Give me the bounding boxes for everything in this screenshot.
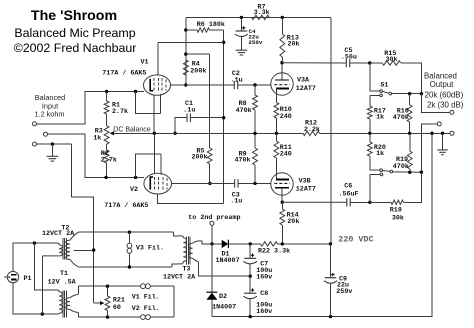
V3B plate bar bbox=[275, 187, 289, 189]
junction C5/R15/S1 bbox=[368, 61, 371, 64]
wire C7 bottom lead bbox=[249, 264, 251, 276]
svg-text:P1: P1 bbox=[24, 275, 32, 283]
label D2 bbox=[212, 293, 236, 312]
junction R16 top bbox=[408, 92, 411, 95]
T3 secondary top lead bbox=[193, 241, 212, 244]
label V3B bbox=[296, 178, 316, 194]
wire input3 to ground bbox=[37, 143, 72, 145]
V3A cathode lead bbox=[275, 89, 277, 103]
T3 primary winding bbox=[178, 236, 187, 264]
terminal to 2nd preamp bbox=[210, 221, 214, 225]
V3A plate bar bbox=[275, 79, 289, 81]
wire C4 stem bottom bbox=[240, 37, 242, 50]
label R13 bbox=[287, 35, 300, 49]
svg-text:1N4007: 1N4007 bbox=[216, 257, 240, 265]
resistor R17 (1k) bbox=[367, 106, 372, 119]
svg-text:12VCT 2A: 12VCT 2A bbox=[42, 230, 75, 238]
resistor R19 (470k) bbox=[407, 151, 412, 169]
wire P1 top lead bbox=[13, 243, 57, 271]
copyright "(c)2002 Fred Nachbaur" bbox=[14, 41, 137, 55]
junction R4 bottom on V1 plate wire bbox=[184, 83, 187, 86]
input terminal 2 (cold) bbox=[44, 132, 48, 136]
junction R21 top bbox=[106, 285, 109, 288]
label R2 bbox=[101, 150, 117, 164]
wire V3A plate row to C5 bbox=[282, 62, 370, 64]
wire V3 fil stubs bbox=[128, 232, 130, 267]
label 717A / 6AK5 (V2) bbox=[104, 202, 148, 210]
wire R5 bottom lead bbox=[209, 164, 211, 183]
label R9 bbox=[235, 150, 251, 164]
svg-text:Balanced Mic Preamp: Balanced Mic Preamp bbox=[14, 26, 135, 40]
svg-text:V3A: V3A bbox=[297, 76, 310, 84]
T1 primary winding bbox=[52, 290, 62, 314]
resistor R13 (20k) bbox=[280, 34, 285, 57]
label R17 bbox=[374, 107, 386, 121]
V3A cathode bar bbox=[276, 88, 289, 90]
wire main bus left bbox=[114, 132, 303, 134]
svg-text:250v: 250v bbox=[336, 288, 352, 296]
wire B+ rail drop to 220VDC rail bbox=[330, 17, 332, 244]
V1 lower element wires bbox=[136, 92, 161, 114]
wire R21 leads bbox=[107, 286, 109, 317]
T1 secondary winding bbox=[66, 298, 70, 310]
svg-text:to 2nd preamp: to 2nd preamp bbox=[188, 214, 240, 222]
wire S1 upper common to output bbox=[392, 93, 422, 95]
resistor R11 (240) bbox=[274, 141, 279, 158]
junction V3 fil bottom bbox=[128, 265, 131, 268]
V3B cathode bar bbox=[276, 178, 289, 180]
capacitor C8 100u 160v bbox=[243, 288, 257, 298]
T2 primary winding bbox=[42, 243, 62, 256]
wire screen bus vertical x=223.7 bbox=[223, 30, 225, 204]
T3 secondary winding bbox=[188, 243, 192, 258]
wire C9 top lead bbox=[330, 244, 332, 278]
svg-text:12VCT 2A: 12VCT 2A bbox=[163, 273, 196, 281]
junction R16 bottom on bus bbox=[408, 132, 411, 135]
T1 secondary bottom lead bbox=[70, 309, 108, 317]
diode D2 1N4007 bbox=[206, 292, 217, 300]
label V3 Fil. bbox=[136, 245, 164, 253]
label T1 bbox=[60, 270, 68, 278]
label R22 3.3k bbox=[258, 247, 290, 255]
capacitor C9 22u 250v bbox=[324, 273, 337, 283]
resistor R5 (200k) bbox=[207, 148, 212, 164]
svg-text:3.3k: 3.3k bbox=[254, 9, 270, 17]
junction C7 top bbox=[249, 242, 252, 245]
svg-text:R22 3.3k: R22 3.3k bbox=[258, 247, 290, 255]
label R12 bbox=[304, 120, 320, 134]
wire R14 leads bbox=[281, 202, 283, 244]
svg-text:30k: 30k bbox=[392, 214, 404, 222]
wire R1-R3 bbox=[106, 114, 108, 126]
label R15 bbox=[384, 50, 397, 64]
wire V1 top lead bbox=[157, 42, 159, 75]
svg-text:©2002 Fred Nachbaur: ©2002 Fred Nachbaur bbox=[14, 41, 137, 55]
label C7 bbox=[256, 260, 272, 281]
wire T2 primary bottom feed bbox=[41, 256, 43, 314]
subtitle "Balanced Mic Preamp" bbox=[14, 26, 135, 40]
label R8 bbox=[236, 100, 252, 115]
wire input2 to V2 cathode wire bbox=[48, 134, 145, 177]
V3A grid dashes bbox=[274, 84, 290, 86]
label 220 VDC bbox=[338, 235, 373, 245]
resistor R12 (2.2k) on bus bbox=[303, 131, 320, 135]
svg-text:V1: V1 bbox=[141, 59, 149, 67]
svg-text:.1u: .1u bbox=[183, 106, 195, 114]
wire C7 top lead bbox=[249, 244, 251, 258]
wire shield down to T2 center-tap ground bbox=[72, 144, 94, 303]
svg-text:200k: 200k bbox=[190, 68, 206, 76]
svg-text:V1 Fil.: V1 Fil. bbox=[132, 294, 160, 302]
wire D1-node down to D2 bbox=[211, 244, 213, 292]
wire C1 row bbox=[175, 118, 224, 134]
label V2 bbox=[130, 186, 138, 194]
tube V3B 12AT7 envelope bbox=[271, 173, 293, 195]
capacitor C5 (.56u) bbox=[346, 59, 349, 67]
junction C1 right on screen bus bbox=[222, 116, 225, 119]
svg-text:20k (60dB): 20k (60dB) bbox=[425, 91, 464, 100]
wire V1 plate wire bbox=[171, 84, 272, 86]
label R7 bbox=[254, 3, 270, 17]
T2 secondary winding bbox=[66, 232, 79, 267]
T1 secondary top lead bbox=[70, 286, 108, 298]
svg-text:160v: 160v bbox=[256, 308, 272, 316]
svg-text:T1: T1 bbox=[60, 270, 68, 278]
wire R4 bottom lead bbox=[185, 75, 187, 85]
svg-text:Output: Output bbox=[430, 80, 454, 89]
junction R5 bottom on V2 plate wire bbox=[208, 182, 211, 185]
tube V2 717A/6AK5 envelope bbox=[144, 173, 172, 194]
wire R18 leads bbox=[370, 172, 422, 202]
junction C6/R18/S1-lower bbox=[368, 201, 371, 204]
junction V2 grid-wire L-wire bbox=[134, 176, 137, 179]
T3 core bbox=[186, 237, 190, 265]
T3 secondary bottom lead bbox=[193, 258, 199, 262]
wire R15 leads bbox=[370, 63, 422, 94]
label DC Balance bbox=[113, 126, 150, 133]
resistor R2 (2.7k) bbox=[104, 150, 109, 163]
label T2 bbox=[61, 224, 69, 232]
V1 Fil lamp circles bbox=[141, 284, 151, 289]
wire V1 fil row bbox=[108, 285, 174, 287]
V1 cathode bar bbox=[150, 79, 153, 91]
svg-text:470k: 470k bbox=[236, 107, 252, 115]
wire V1 screen wire y=42.3 bbox=[158, 41, 224, 43]
wire R5 branch horizontal bbox=[186, 53, 210, 55]
ground symbol at output bbox=[437, 150, 448, 155]
junction V1 common on bus bbox=[153, 132, 156, 135]
wire D2 to ground rail bbox=[211, 300, 213, 317]
svg-text:1N4007: 1N4007 bbox=[212, 304, 236, 312]
svg-text:R18: R18 bbox=[390, 206, 402, 214]
label S1 bbox=[380, 81, 388, 89]
label R6 180k bbox=[197, 21, 225, 29]
wire R6 left vertical (x=185.8 from rail) bbox=[185, 17, 187, 85]
R21 wiper arrow bbox=[94, 301, 105, 305]
junction bus/ground-drop bbox=[430, 132, 433, 135]
wire V2 common up to bus bbox=[153, 133, 155, 154]
wire T1 primary top feed bbox=[34, 243, 56, 290]
resistor R18 (30k) bbox=[391, 200, 404, 204]
svg-text:.56uF: .56uF bbox=[339, 190, 359, 198]
wire output ground stub bbox=[442, 133, 444, 150]
junction R10/R11 on bus bbox=[275, 132, 278, 135]
svg-text:220 VDC: 220 VDC bbox=[338, 235, 373, 245]
junction screen/V1 screen wire bbox=[222, 41, 225, 44]
wire S1 lower common row bbox=[393, 171, 422, 173]
label T3 12VCT 2A bbox=[163, 273, 196, 281]
label C4 bbox=[248, 28, 262, 46]
wire P1 bottom lead bbox=[13, 283, 52, 314]
junction T2 primary feed bottom bbox=[41, 312, 44, 315]
label T1 12V .5A bbox=[48, 279, 77, 287]
input terminal 3 (shield) bbox=[33, 142, 37, 146]
wire S1 lower bottom-throw stub bbox=[370, 175, 380, 203]
V2 Fil lamp circles bbox=[141, 315, 151, 320]
tube V3A 12AT7 envelope bbox=[271, 73, 293, 95]
junction V3A grid / R8 bbox=[253, 83, 256, 86]
wire V3B plate row to C6 bbox=[282, 201, 370, 203]
svg-text:V2 Fil.: V2 Fil. bbox=[132, 305, 160, 313]
svg-text:The 'Shroom: The 'Shroom bbox=[31, 8, 117, 24]
label R3 bbox=[93, 128, 103, 143]
label R4 bbox=[190, 61, 206, 76]
S1 lower arm bbox=[382, 170, 390, 173]
switch S1 lower contacts bbox=[380, 169, 393, 176]
junction R2 bottom bbox=[104, 176, 107, 179]
junction bus/ground symbol bbox=[441, 132, 444, 135]
svg-text:V2: V2 bbox=[130, 186, 138, 194]
switch S1 upper contacts bbox=[380, 90, 392, 97]
resistor R9 (470k) bbox=[253, 148, 258, 165]
capacitor C6 (.56uF) bbox=[347, 198, 350, 206]
label R16 bbox=[393, 107, 409, 122]
resistor R14 (20k) bbox=[280, 209, 285, 225]
svg-text:717A / 6AK5: 717A / 6AK5 bbox=[102, 69, 146, 77]
output terminal 1 bbox=[450, 110, 454, 114]
svg-text:2.7k: 2.7k bbox=[112, 108, 128, 116]
label C5 bbox=[341, 47, 357, 61]
junction R1 top bbox=[105, 90, 108, 93]
wire R19 leads bbox=[409, 133, 411, 172]
wire R1 top lead bbox=[106, 92, 108, 102]
wire S1 upper bottom-throw stub bbox=[370, 94, 380, 96]
wire R16 leads bbox=[409, 94, 411, 134]
output terminal 2 bbox=[437, 122, 441, 126]
label C9 bbox=[336, 275, 352, 295]
junction C4 top bbox=[240, 16, 243, 19]
label Balanced Output bbox=[424, 72, 457, 90]
wire S1 upper top-throw stub bbox=[370, 63, 380, 91]
resistor R16 (470k) bbox=[407, 105, 412, 122]
label R11 bbox=[280, 144, 292, 159]
wire ground rail bbox=[212, 133, 432, 316]
wire R13 leads bbox=[281, 17, 283, 62]
svg-text:.56u: .56u bbox=[341, 53, 357, 61]
wire C9 bottom lead bbox=[330, 284, 332, 317]
label R1 bbox=[112, 102, 128, 116]
wire top rail B+ bbox=[186, 16, 331, 18]
wire R6 row bbox=[186, 29, 224, 31]
junction C9 bottom bbox=[329, 315, 332, 318]
svg-text:1k: 1k bbox=[93, 135, 101, 143]
wire V3A plate lead bbox=[281, 63, 283, 80]
wire main bus right bbox=[320, 132, 450, 134]
wire V3 fil top row bbox=[79, 231, 174, 233]
wire output terminal 1 bbox=[421, 94, 449, 113]
junction C1 left on signal bus bbox=[173, 132, 176, 135]
label D1 bbox=[216, 250, 240, 265]
label R18 bbox=[390, 206, 404, 222]
label C2 bbox=[231, 70, 243, 84]
svg-text:1.2 kohm: 1.2 kohm bbox=[34, 109, 64, 118]
svg-text:D2: D2 bbox=[219, 293, 227, 301]
junction output node bbox=[420, 92, 423, 95]
V2 bottom lead to screen wire bbox=[158, 194, 224, 204]
wire R8 leads bbox=[254, 85, 256, 133]
wire R11 leads bbox=[275, 133, 277, 179]
label C8 bbox=[256, 290, 272, 316]
svg-text:2k (30 dB): 2k (30 dB) bbox=[427, 100, 464, 109]
svg-text:717A / 6AK5: 717A / 6AK5 bbox=[104, 202, 148, 210]
svg-text:160v: 160v bbox=[256, 274, 272, 282]
svg-text:470k: 470k bbox=[393, 114, 409, 122]
svg-text:1k: 1k bbox=[376, 114, 384, 122]
T2 core bbox=[63, 238, 67, 260]
svg-text:1k: 1k bbox=[376, 150, 384, 158]
svg-text:470k: 470k bbox=[235, 157, 251, 165]
junction terminal2 drop bbox=[420, 171, 423, 174]
resistor R20 (1k) bbox=[367, 142, 372, 156]
junction V1 grid-wire L-wire bbox=[134, 90, 137, 93]
V1 grid dashes bbox=[154, 78, 166, 92]
T2 center tap bbox=[73, 249, 93, 251]
junction R13 top bbox=[281, 16, 284, 19]
resistor R15 (30k) bbox=[382, 61, 401, 65]
wire R2 bottom lead bbox=[106, 163, 108, 177]
junction V3 fil top bbox=[128, 231, 131, 234]
T1 core bbox=[63, 291, 67, 318]
label V2 Fil. bbox=[132, 305, 160, 313]
capacitor C7 100u 160v bbox=[243, 254, 257, 264]
bus terminal at right bbox=[450, 131, 454, 135]
diode D1 1N4007 bbox=[222, 240, 229, 248]
V2 upper element wires bbox=[136, 154, 161, 177]
wire ground stub bbox=[51, 144, 53, 156]
svg-text:C8: C8 bbox=[260, 290, 268, 298]
wire R9 leads bbox=[254, 133, 256, 183]
label to 2nd preamp bbox=[188, 214, 240, 222]
svg-text:20k: 20k bbox=[288, 41, 300, 49]
svg-text:V3 Fil.: V3 Fil. bbox=[136, 245, 164, 253]
junction R8/R9 on bus bbox=[253, 132, 256, 135]
svg-text:.1u: .1u bbox=[230, 198, 242, 206]
junction C7/C8 midpoint bbox=[249, 275, 252, 278]
wire R17 leads bbox=[369, 95, 371, 133]
label T3 bbox=[183, 266, 191, 274]
wire input1 to V1 cathode wire bbox=[37, 92, 145, 124]
wire V2 plate wire bbox=[172, 182, 271, 184]
resistor R7 (3.3k) on top rail bbox=[252, 15, 270, 19]
label Balanced Input 1.2 kohm bbox=[34, 93, 65, 118]
label R5 bbox=[192, 148, 208, 162]
junction R14 bottom on rail bbox=[281, 242, 284, 245]
junction R4 top / R5 branch bbox=[184, 52, 187, 55]
wire T3 primary bottom jog bbox=[172, 264, 177, 267]
svg-text:200k: 200k bbox=[192, 154, 208, 162]
ground symbol at input bbox=[47, 156, 59, 161]
svg-text:V3B: V3B bbox=[299, 178, 311, 186]
wire 2nd preamp terminal drop bbox=[211, 225, 213, 244]
junction R6 left bbox=[184, 28, 187, 31]
wire R3-R2 bbox=[106, 144, 108, 150]
capacitor C3 (.1u) bbox=[235, 179, 238, 187]
junction R21 bottom bbox=[106, 315, 109, 318]
svg-text:S1: S1 bbox=[380, 81, 388, 89]
plug P1 bbox=[4, 271, 19, 282]
S1 upper arm bbox=[382, 91, 389, 93]
resistor R6 (180k) bbox=[197, 28, 209, 32]
wire V2 fil row bbox=[108, 316, 174, 318]
svg-text:250v: 250v bbox=[248, 39, 262, 46]
tube V1 717A/6AK5 envelope bbox=[144, 75, 171, 95]
V3B plate lead bbox=[281, 188, 283, 202]
wire C8 top lead bbox=[249, 276, 251, 293]
wire R5 vertical upper bbox=[209, 54, 211, 148]
capacitor C2 (.1u) bbox=[234, 81, 237, 89]
title text "The 'Shroom" bbox=[31, 8, 117, 24]
label R20 bbox=[374, 144, 386, 158]
potentiometer R3 (1k) DC Balance bbox=[104, 126, 109, 144]
junction R19 bottom bbox=[408, 171, 411, 174]
label P1 bbox=[24, 275, 32, 283]
junction D1 anode node bbox=[210, 242, 213, 245]
junction R17 bottom on bus bbox=[368, 132, 371, 135]
label V3A bbox=[296, 76, 316, 92]
svg-text:60: 60 bbox=[113, 304, 121, 312]
junction input ground bbox=[51, 142, 54, 145]
wire V1 common down to bus bbox=[153, 113, 155, 133]
svg-text:.1u: .1u bbox=[231, 76, 243, 84]
svg-text:2.7k: 2.7k bbox=[101, 157, 117, 165]
V3 Fil lamp circles bbox=[127, 243, 132, 253]
svg-text:2.2k: 2.2k bbox=[304, 126, 320, 134]
label T2 12VCT 2A bbox=[42, 230, 75, 238]
wire doubler midpoint from T3 bbox=[198, 262, 250, 276]
wire 220VDC rail bbox=[203, 243, 331, 245]
svg-text:240: 240 bbox=[280, 113, 292, 121]
resistor R22 (3.3k) in rail bbox=[261, 242, 278, 246]
svg-text:R6 180k: R6 180k bbox=[197, 21, 225, 29]
label V1 Fil. bbox=[132, 294, 160, 302]
junction rail / B+ drop / C9 bbox=[329, 242, 332, 245]
label C1 bbox=[183, 100, 195, 114]
wire R10 bottom lead bbox=[275, 118, 277, 133]
svg-text:12V .5A: 12V .5A bbox=[48, 279, 77, 287]
junction center tap to ground line bbox=[92, 248, 95, 251]
label C6 bbox=[339, 183, 359, 199]
resistor R10 (240) bbox=[274, 103, 279, 119]
wire C8 bottom lead bbox=[249, 299, 251, 317]
label 20k (60dB) bbox=[425, 91, 464, 100]
label R19 bbox=[393, 156, 409, 171]
wire R20 leads bbox=[370, 133, 380, 170]
svg-text:20k: 20k bbox=[287, 218, 299, 226]
label R14 bbox=[287, 211, 300, 225]
svg-text:470k: 470k bbox=[393, 163, 409, 171]
input terminal 1 (hot) bbox=[33, 122, 37, 126]
junction C8 bottom bbox=[249, 315, 252, 318]
